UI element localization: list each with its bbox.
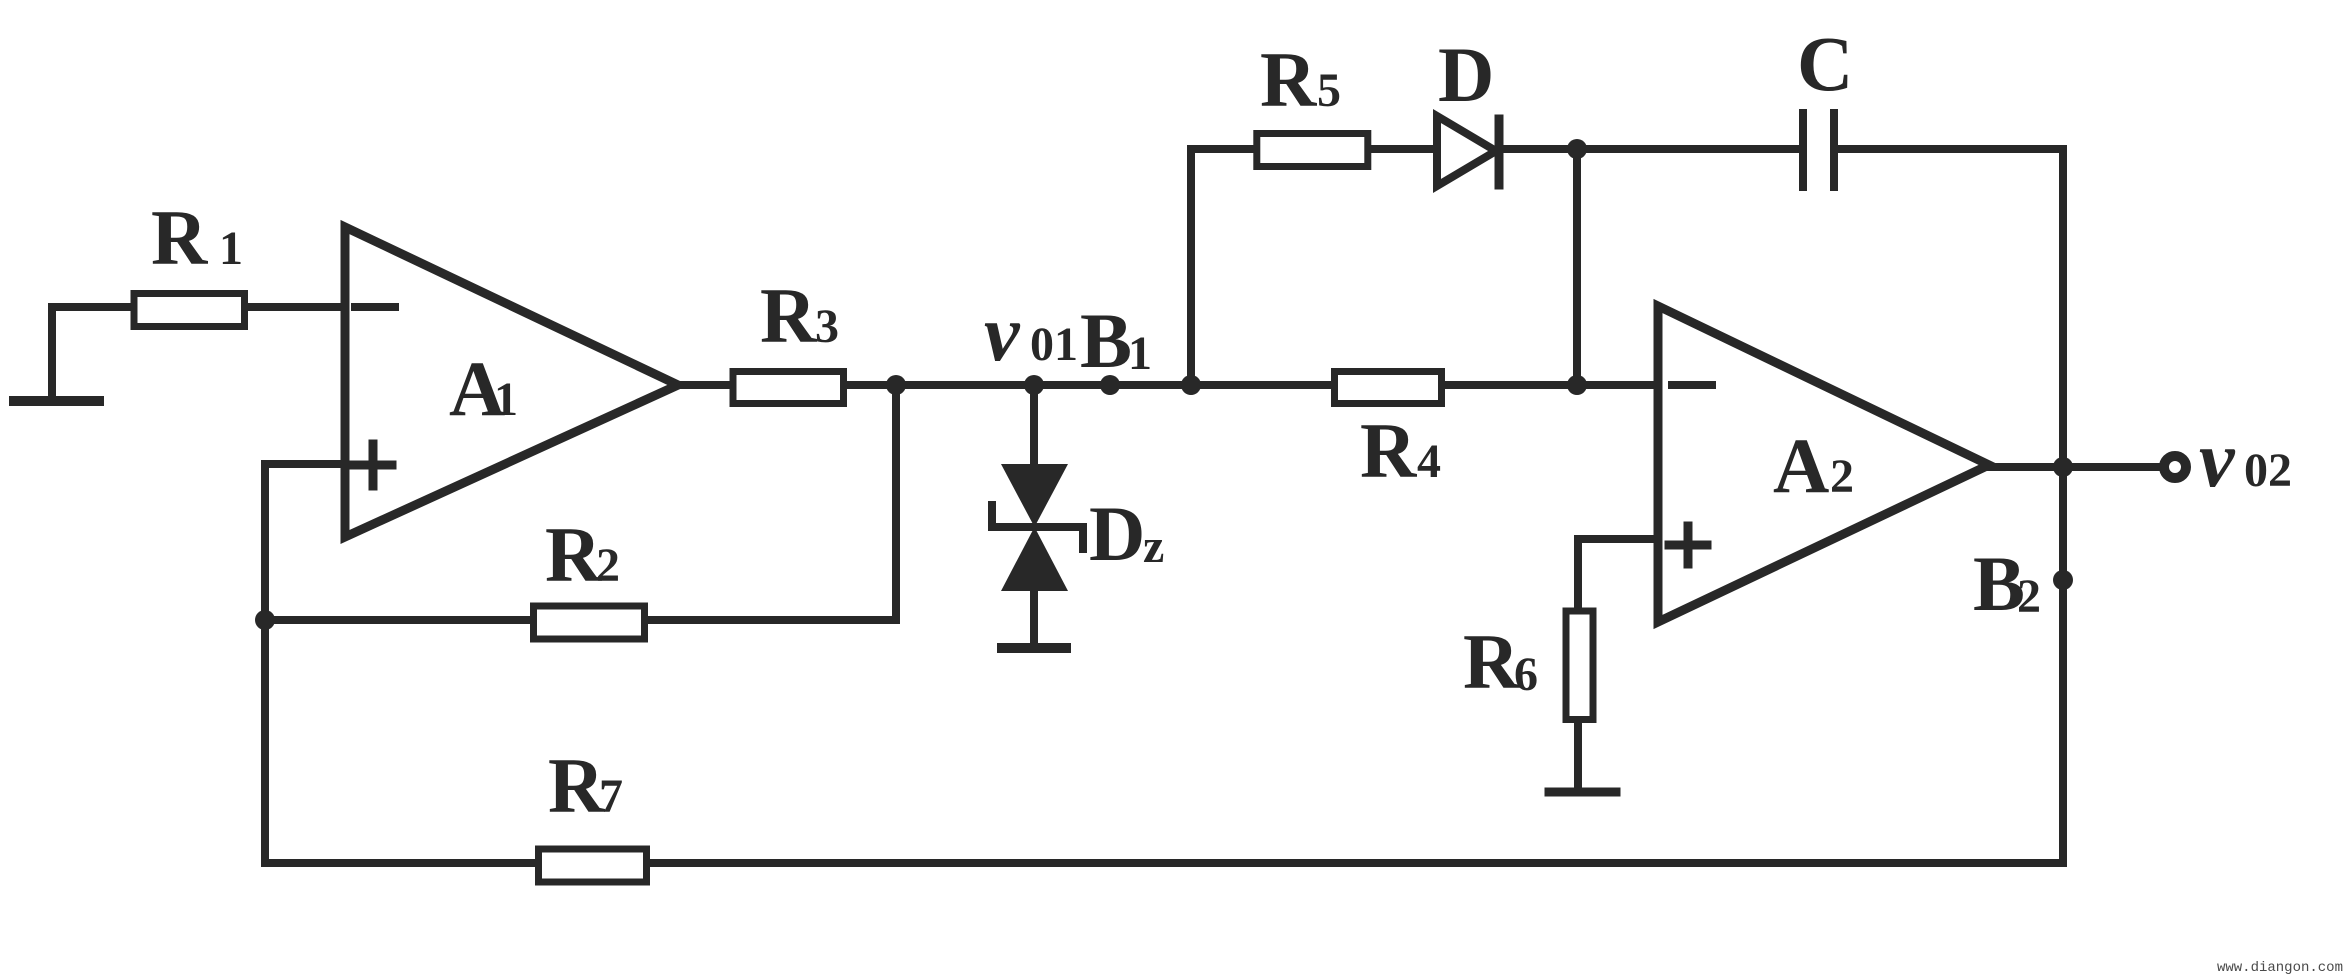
ground R6 (1549, 788, 1616, 797)
node v01 (1024, 375, 1044, 395)
resistor R7 (539, 849, 647, 882)
ground Dz (1002, 643, 1066, 653)
wire A2 non-inverting input (1578, 539, 1658, 607)
node after R3 (886, 375, 906, 395)
wire input to R1 (52, 307, 133, 397)
svg-text:3: 3 (815, 300, 839, 353)
svg-text:D: D (1089, 490, 1145, 577)
resistor R5 (1257, 134, 1368, 167)
svg-text:2: 2 (2017, 570, 2041, 623)
resistor R3 (733, 372, 844, 404)
svg-text:R: R (545, 511, 603, 598)
wire A1 output (678, 381, 730, 389)
zener Dz lower wire (1030, 591, 1038, 644)
svg-text:1: 1 (219, 222, 243, 275)
svg-text:D: D (1438, 31, 1494, 118)
terminal v02 (2164, 456, 2186, 478)
svg-text:02: 02 (2244, 444, 2292, 497)
svg-text:6: 6 (1514, 648, 1538, 701)
svg-text:z: z (1143, 520, 1164, 573)
svg-text:C: C (1797, 20, 1853, 107)
node output junction (2053, 457, 2073, 477)
wire R2 to main node (892, 385, 900, 620)
zener Dz upper triangle (1001, 464, 1068, 527)
svg-text:1: 1 (1128, 327, 1152, 380)
svg-text:01: 01 (1030, 318, 1078, 371)
svg-text:5: 5 (1317, 64, 1341, 117)
node junction left column / R2 (255, 610, 275, 630)
node R5 branch (1181, 375, 1201, 395)
A2 plus pin mark (1669, 541, 1707, 550)
svg-text:ν: ν (2199, 416, 2236, 504)
resistor R1 (134, 294, 245, 327)
svg-text:A: A (1773, 422, 1829, 509)
A2 minus pin mark (1672, 381, 1712, 389)
svg-text:R: R (760, 272, 818, 359)
svg-text:www.diangon.com: www.diangon.com (2217, 960, 2343, 976)
svg-text:R: R (1360, 407, 1418, 494)
wire A1 non-inverting input to left column (265, 464, 345, 863)
wire main line R3 to R4 (845, 381, 1331, 389)
svg-text:R: R (151, 194, 209, 281)
A1 minus pin mark (355, 303, 395, 311)
svg-text:R: R (1260, 36, 1318, 123)
op-amp A1 (345, 227, 678, 537)
wire node down to main line (1573, 149, 1581, 385)
svg-text:7: 7 (599, 770, 623, 823)
zener Dz wire from node v01 (1030, 385, 1038, 464)
wire R7 right (650, 859, 2063, 867)
diode D (1437, 116, 1496, 186)
wire R5 to diode (1370, 145, 1437, 153)
wire R7 left (265, 859, 535, 867)
capacitor C (1799, 113, 1807, 187)
resistor R4 (1335, 372, 1442, 404)
wire A2 output (1989, 463, 2160, 471)
svg-text:2: 2 (596, 539, 620, 592)
wire R1 to A1 inverting input (248, 303, 345, 311)
wire capacitor to right column (1838, 145, 2063, 153)
wire R2 left (265, 616, 530, 624)
A1 plus pin mark (354, 461, 392, 470)
node B2 (2053, 570, 2073, 590)
op-amp A2 (1658, 306, 1989, 622)
svg-text:B: B (1080, 297, 1132, 384)
svg-text:ν: ν (984, 290, 1021, 378)
wire branch up to R5 (1191, 149, 1254, 385)
wire diode to capacitor (1503, 145, 1799, 153)
resistor R2 (534, 606, 645, 639)
wire R6 to ground (1574, 723, 1582, 788)
wire right column down (2059, 149, 2067, 863)
wire R4 to A2 inverting input (1445, 381, 1658, 389)
zener Dz bar (992, 505, 1083, 549)
svg-text:4: 4 (1417, 435, 1441, 488)
wire R2 right (648, 616, 896, 624)
node R4 right (1567, 375, 1587, 395)
node diode out (1567, 139, 1587, 159)
node B1 (1100, 375, 1120, 395)
zener Dz lower triangle (1001, 527, 1068, 591)
resistor R6 (1566, 611, 1593, 720)
svg-text:1: 1 (494, 373, 518, 426)
svg-text:R: R (548, 742, 606, 829)
ground input (14, 396, 99, 406)
svg-text:R: R (1463, 618, 1521, 705)
svg-text:2: 2 (1830, 450, 1854, 503)
